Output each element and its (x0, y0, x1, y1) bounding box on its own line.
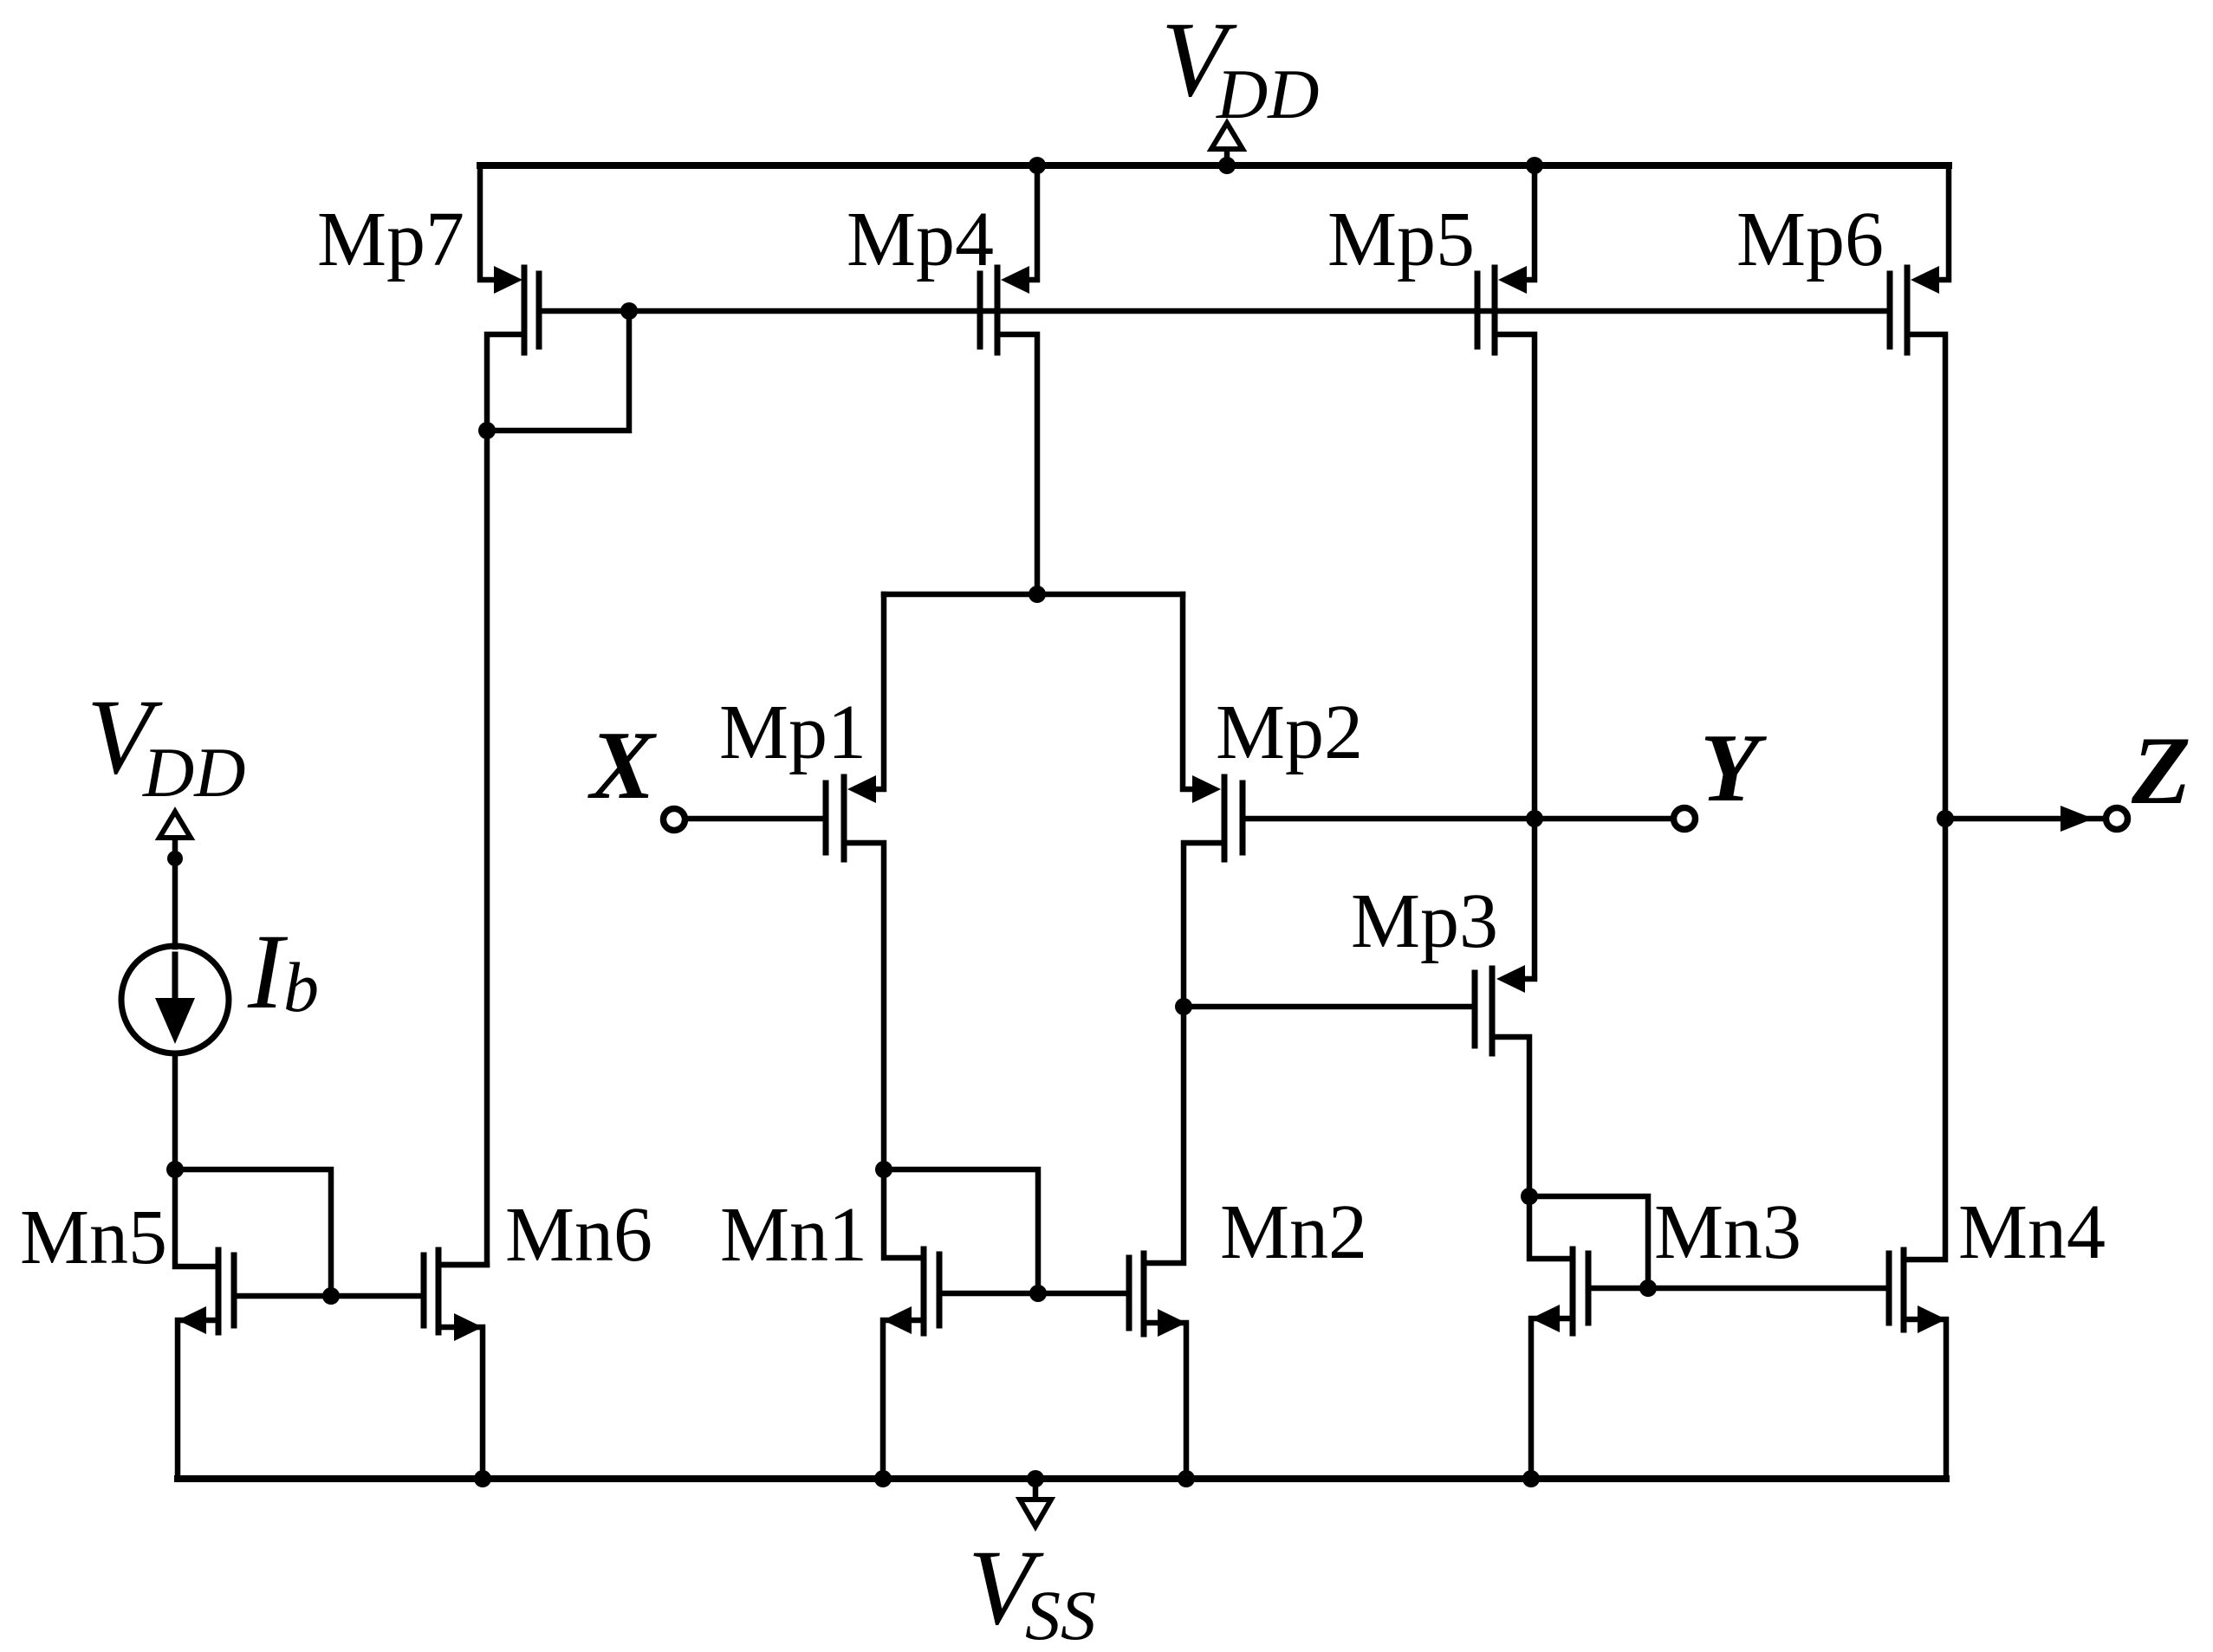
svg-text:b: b (283, 948, 319, 1027)
svg-text:Mn1: Mn1 (720, 1192, 867, 1278)
svg-text:Y: Y (1700, 715, 1767, 822)
svg-text:Mp4: Mp4 (847, 197, 994, 282)
svg-text:Z: Z (2131, 717, 2190, 825)
svg-text:X: X (587, 712, 657, 820)
svg-text:Mp7: Mp7 (317, 197, 464, 282)
svg-text:Mp2: Mp2 (1216, 690, 1363, 775)
svg-text:SS: SS (1025, 1576, 1096, 1648)
svg-text:Mn2: Mn2 (1220, 1189, 1367, 1275)
svg-text:Mp5: Mp5 (1327, 197, 1475, 282)
svg-text:Mp6: Mp6 (1736, 197, 1884, 282)
svg-text:I: I (247, 912, 289, 1031)
svg-text:Mn5: Mn5 (20, 1195, 167, 1280)
svg-text:Mp1: Mp1 (719, 690, 866, 775)
svg-text:Mn4: Mn4 (1958, 1189, 2106, 1275)
svg-text:DD: DD (1216, 55, 1319, 133)
svg-text:Mn3: Mn3 (1654, 1189, 1801, 1275)
svg-text:Mn6: Mn6 (505, 1192, 652, 1278)
svg-text:DD: DD (142, 733, 245, 812)
svg-text:Mp3: Mp3 (1351, 878, 1498, 964)
